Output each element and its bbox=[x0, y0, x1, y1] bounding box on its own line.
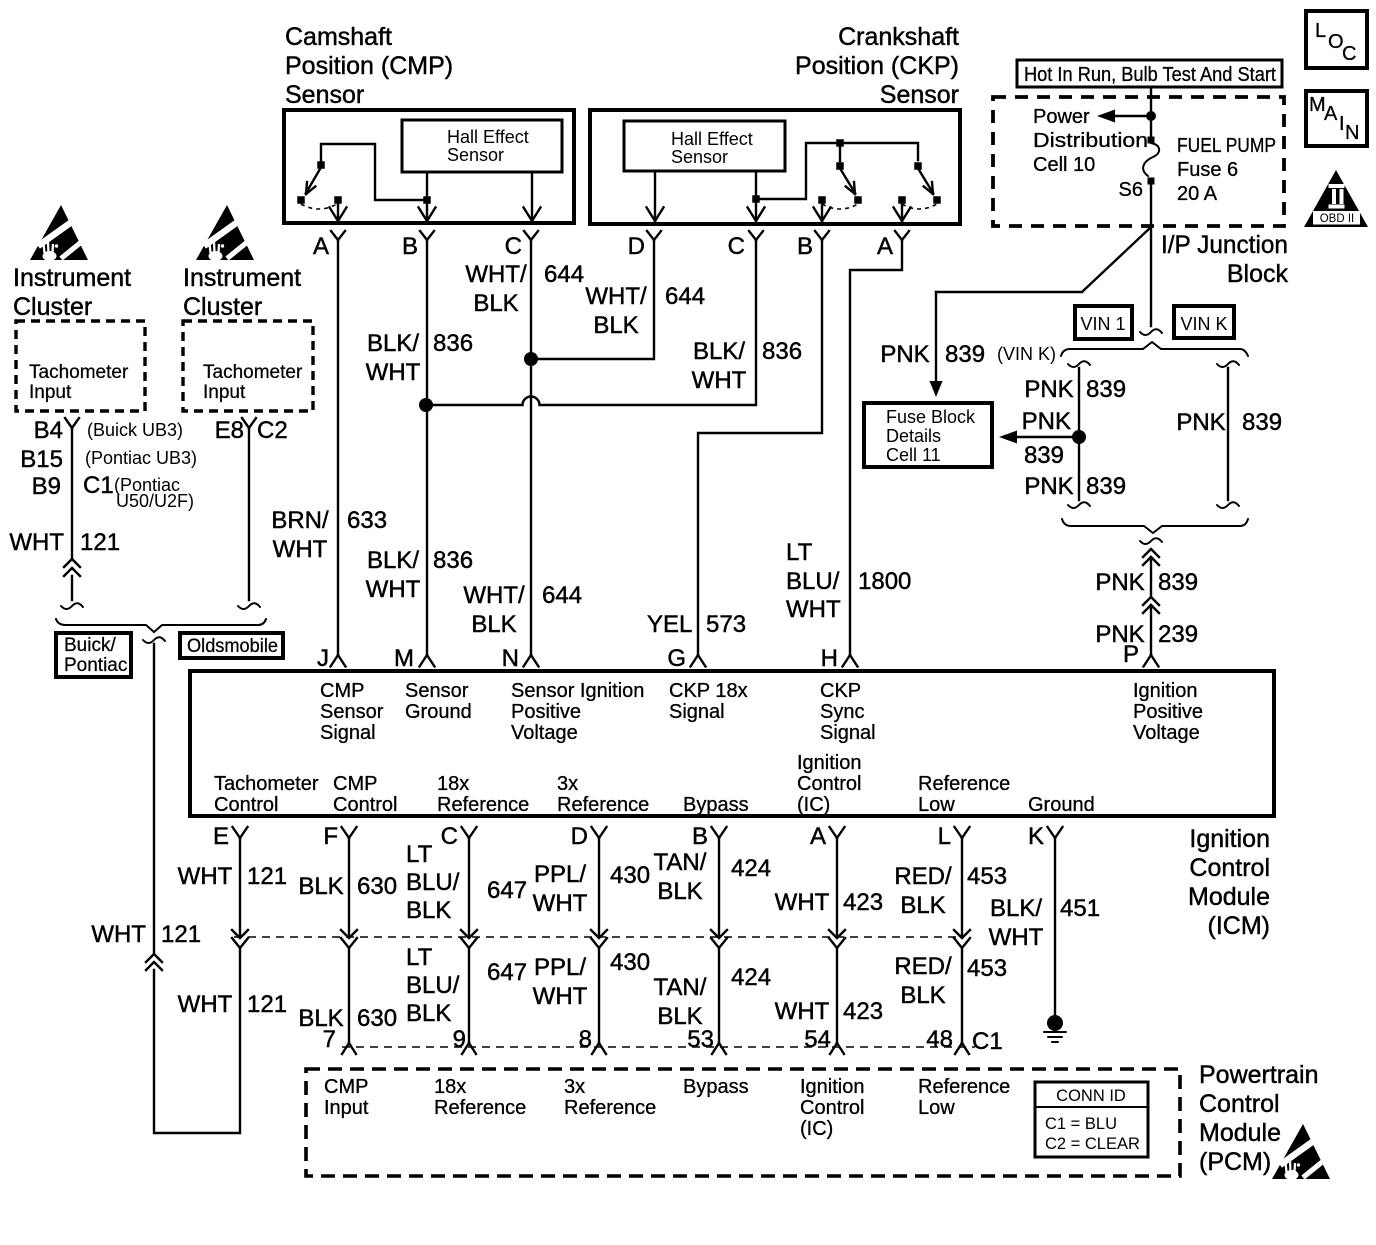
svg-text:647: 647 bbox=[487, 959, 527, 986]
svg-text:Sensor: Sensor bbox=[320, 701, 384, 723]
svg-text:P: P bbox=[1123, 641, 1139, 668]
CMP pin A internal arrow bbox=[337, 204, 339, 220]
wire CMP A to ICM J / BRN WHT 633 bbox=[337, 240, 339, 653]
fuse F6 element bbox=[1143, 143, 1159, 176]
wire end curl bbox=[61, 603, 83, 609]
svg-text:Tachometer: Tachometer bbox=[29, 362, 129, 383]
inline connector symbols bbox=[232, 930, 248, 938]
Oldsmobile box bbox=[180, 633, 283, 658]
CMP switch arm bbox=[306, 169, 320, 193]
wire brace down-left loop to ICM pin E bbox=[154, 644, 240, 1133]
svg-text:Input: Input bbox=[324, 1097, 369, 1119]
svg-text:A: A bbox=[810, 823, 826, 850]
svg-text:48: 48 bbox=[926, 1026, 953, 1053]
svg-text:BLK/: BLK/ bbox=[367, 330, 419, 357]
CMP switch dashed travel arc bbox=[301, 204, 337, 209]
CKP right switch arm bbox=[919, 170, 933, 193]
svg-text:Voltage: Voltage bbox=[511, 722, 578, 744]
CMP switch contact node bbox=[297, 196, 305, 204]
svg-text:Distribution: Distribution bbox=[1033, 130, 1148, 152]
svg-text:Hot In Run, Bulb Test And Star: Hot In Run, Bulb Test And Start bbox=[1024, 64, 1276, 86]
svg-text:PNK: PNK bbox=[1022, 408, 1071, 435]
svg-text:121: 121 bbox=[161, 921, 201, 948]
CKP left switch stub bbox=[839, 147, 841, 161]
svg-text:Hall Effect: Hall Effect bbox=[671, 129, 753, 149]
svg-text:BLK: BLK bbox=[406, 1000, 451, 1027]
Buick/Pontiac box bbox=[56, 633, 131, 677]
svg-text:Ignition: Ignition bbox=[800, 1076, 865, 1098]
svg-text:Oldsmobile: Oldsmobile bbox=[187, 636, 278, 657]
arrow to Power Distribution bbox=[1113, 115, 1149, 117]
svg-text:644: 644 bbox=[542, 582, 582, 609]
svg-text:WHT: WHT bbox=[533, 890, 588, 917]
brace cluster alternatives bbox=[56, 619, 266, 632]
OBD II symbol bbox=[1304, 170, 1368, 227]
svg-text:C2 = CLEAR: C2 = CLEAR bbox=[1045, 1135, 1140, 1153]
svg-text:430: 430 bbox=[610, 949, 650, 976]
Tachometer Input dashed box 1 bbox=[16, 321, 145, 411]
svg-text:644: 644 bbox=[544, 261, 584, 288]
svg-text:Hall Effect: Hall Effect bbox=[447, 127, 529, 147]
svg-text:Instrument: Instrument bbox=[183, 264, 301, 292]
svg-text:Positive: Positive bbox=[1133, 701, 1203, 723]
svg-text:WHT/: WHT/ bbox=[463, 582, 525, 609]
svg-text:Low: Low bbox=[918, 794, 955, 816]
svg-text:C1: C1 bbox=[972, 1028, 1003, 1055]
svg-text:VIN 1: VIN 1 bbox=[1080, 314, 1125, 334]
svg-text:K: K bbox=[1028, 823, 1044, 850]
svg-text:423: 423 bbox=[843, 889, 883, 916]
svg-text:453: 453 bbox=[967, 863, 1007, 890]
svg-text:L: L bbox=[938, 823, 951, 850]
svg-text:Buick/: Buick/ bbox=[64, 635, 116, 656]
wire curl under brace bbox=[143, 637, 165, 643]
svg-text:18x: 18x bbox=[437, 773, 469, 795]
svg-text:Ground: Ground bbox=[1028, 794, 1095, 816]
wire CKP C joining CMP B / BLK WHT 836 bbox=[426, 240, 756, 405]
svg-text:A: A bbox=[877, 233, 893, 260]
svg-text:(PCM): (PCM) bbox=[1199, 1148, 1271, 1176]
svg-text:G: G bbox=[667, 645, 686, 672]
svg-text:I: I bbox=[1339, 113, 1345, 135]
svg-text:121: 121 bbox=[247, 863, 287, 890]
CKP switch common wire bbox=[760, 143, 918, 199]
junction dot 836 splice bbox=[419, 398, 433, 412]
wire ICM D to PCM 8 / PPL WHT 430 bbox=[598, 838, 600, 1043]
svg-text:Fuse Block: Fuse Block bbox=[886, 407, 976, 427]
svg-text:BLK: BLK bbox=[657, 878, 702, 905]
svg-text:Control: Control bbox=[1189, 854, 1270, 882]
svg-text:424: 424 bbox=[731, 964, 771, 991]
svg-text:3x: 3x bbox=[557, 773, 578, 795]
svg-text:Reference: Reference bbox=[918, 773, 1010, 795]
CKP pin B internal arrow bbox=[821, 204, 823, 220]
svg-text:839: 839 bbox=[1242, 409, 1282, 436]
svg-text:BLK: BLK bbox=[298, 1005, 343, 1032]
svg-text:WHT: WHT bbox=[366, 576, 421, 603]
svg-text:Control: Control bbox=[797, 773, 861, 795]
svg-text:Signal: Signal bbox=[669, 701, 725, 723]
svg-text:B4: B4 bbox=[34, 417, 63, 444]
wire branch S6 to fuse block (diagonal) bbox=[936, 228, 1150, 292]
wire ICM A to PCM 54 / WHT 423 bbox=[836, 838, 838, 1043]
svg-text:(ICM): (ICM) bbox=[1208, 912, 1270, 940]
svg-text:Module: Module bbox=[1188, 883, 1270, 911]
svg-text:Signal: Signal bbox=[820, 722, 876, 744]
svg-text:WHT: WHT bbox=[178, 991, 233, 1018]
svg-text:Bypass: Bypass bbox=[683, 794, 749, 816]
CMP reluctor switch common wire bbox=[321, 144, 423, 200]
svg-text:239: 239 bbox=[1158, 621, 1198, 648]
svg-text:(IC): (IC) bbox=[797, 794, 830, 816]
svg-text:BLU/: BLU/ bbox=[406, 972, 460, 999]
VIN K box bbox=[1174, 306, 1234, 338]
svg-text:423: 423 bbox=[843, 998, 883, 1025]
svg-text:C: C bbox=[505, 233, 522, 260]
CMP sensor outer box bbox=[284, 110, 574, 223]
wire CKP D joining CMP C / WHT BLK 644 bbox=[536, 240, 654, 359]
svg-text:BLK/: BLK/ bbox=[990, 895, 1042, 922]
svg-text:839: 839 bbox=[1158, 569, 1198, 596]
svg-text:RED/: RED/ bbox=[894, 953, 952, 980]
svg-text:7: 7 bbox=[323, 1026, 336, 1053]
svg-text:Ground: Ground bbox=[405, 701, 472, 723]
svg-text:836: 836 bbox=[433, 330, 473, 357]
svg-text:Tachometer: Tachometer bbox=[214, 773, 319, 795]
break chevrons upper bbox=[1143, 549, 1159, 557]
svg-text:FUEL PUMP: FUEL PUMP bbox=[1177, 135, 1276, 157]
CKP pin A internal node bbox=[898, 196, 906, 204]
svg-text:BLK: BLK bbox=[473, 290, 518, 317]
svg-text:BLK/: BLK/ bbox=[693, 338, 745, 365]
svg-text:Reference: Reference bbox=[434, 1097, 526, 1119]
svg-text:E8: E8 bbox=[215, 417, 244, 444]
svg-text:B15: B15 bbox=[20, 446, 63, 473]
svg-text:H: H bbox=[821, 645, 838, 672]
svg-text:839: 839 bbox=[945, 341, 985, 368]
svg-text:647: 647 bbox=[487, 877, 527, 904]
svg-text:633: 633 bbox=[347, 507, 387, 534]
PCM connector dashed line bbox=[342, 1046, 975, 1048]
svg-text:Sensor: Sensor bbox=[671, 147, 728, 167]
svg-text:Fuse 6: Fuse 6 bbox=[1177, 159, 1238, 181]
svg-text:OBD II: OBD II bbox=[1320, 213, 1355, 225]
svg-text:Cell 10: Cell 10 bbox=[1033, 154, 1095, 176]
CKP Hall Effect Sensor box U2 bbox=[624, 121, 785, 171]
svg-text:LT: LT bbox=[406, 944, 433, 971]
wire brace to ICM pin P bbox=[1150, 557, 1152, 597]
arrow to Fuse Block Details bbox=[1017, 436, 1077, 438]
svg-text:BLK: BLK bbox=[406, 897, 451, 924]
svg-text:BRN/: BRN/ bbox=[271, 507, 329, 534]
break chevrons lower bbox=[1143, 597, 1159, 605]
svg-text:121: 121 bbox=[247, 991, 287, 1018]
svg-text:Sensor: Sensor bbox=[405, 680, 469, 702]
svg-text:WHT: WHT bbox=[775, 998, 830, 1025]
wire ICM F to PCM 7 / BLK 630 bbox=[348, 838, 350, 1043]
CMP Hall output to pin B node bbox=[423, 196, 431, 204]
svg-text:839: 839 bbox=[1086, 376, 1126, 403]
svg-text:TAN/: TAN/ bbox=[654, 849, 707, 876]
svg-text:630: 630 bbox=[357, 1005, 397, 1032]
svg-text:451: 451 bbox=[1060, 895, 1100, 922]
svg-text:U50/U2F): U50/U2F) bbox=[116, 491, 194, 511]
svg-text:836: 836 bbox=[433, 547, 473, 574]
svg-text:Position (CKP): Position (CKP) bbox=[795, 52, 959, 80]
svg-text:RED/: RED/ bbox=[894, 863, 952, 890]
svg-text:WHT: WHT bbox=[273, 536, 328, 563]
svg-text:BLK: BLK bbox=[900, 982, 945, 1009]
svg-text:PNK: PNK bbox=[1095, 569, 1144, 596]
svg-text:1800: 1800 bbox=[858, 568, 911, 595]
svg-text:WHT: WHT bbox=[91, 921, 146, 948]
svg-text:644: 644 bbox=[665, 283, 705, 310]
harness connector dashed line bbox=[234, 936, 962, 938]
svg-text:LT: LT bbox=[406, 841, 433, 868]
svg-text:836: 836 bbox=[762, 338, 802, 365]
VIN 1 alternative wire bracket bbox=[1068, 361, 1090, 367]
svg-text:PPL/: PPL/ bbox=[534, 861, 586, 888]
svg-text:CONN ID: CONN ID bbox=[1056, 1087, 1126, 1105]
CMP pin B internal arrow bbox=[426, 204, 428, 220]
svg-text:CKP 18x: CKP 18x bbox=[669, 680, 748, 702]
junction dot 644 splice bbox=[524, 352, 538, 366]
brace under VIN alternatives bbox=[1062, 519, 1248, 533]
CKP Hall output to pin C node bbox=[755, 171, 757, 195]
I/P Junction Block dashed box bbox=[993, 97, 1284, 226]
svg-text:Module: Module bbox=[1199, 1119, 1281, 1147]
svg-text:N: N bbox=[502, 645, 519, 672]
svg-text:E: E bbox=[213, 823, 229, 850]
svg-text:Cluster: Cluster bbox=[183, 293, 262, 321]
CMP Hall output to pin C arrow bbox=[531, 172, 533, 220]
svg-text:Reference: Reference bbox=[918, 1076, 1010, 1098]
svg-text:Cluster: Cluster bbox=[13, 293, 92, 321]
svg-text:Crankshaft: Crankshaft bbox=[838, 23, 959, 51]
CKP pin A internal arrow bbox=[901, 204, 903, 220]
ESD symbol left bbox=[30, 205, 92, 261]
Powertrain Control Module dashed box bbox=[306, 1069, 1180, 1176]
fuse F6 terminal top bbox=[1148, 137, 1155, 144]
svg-text:(IC): (IC) bbox=[800, 1118, 833, 1140]
svg-text:Bypass: Bypass bbox=[683, 1076, 749, 1098]
CKP right dashed travel arc bbox=[902, 204, 937, 209]
svg-text:PPL/: PPL/ bbox=[534, 954, 586, 981]
CONN ID box bbox=[1035, 1082, 1148, 1157]
svg-text:Control: Control bbox=[214, 794, 278, 816]
svg-text:BLK: BLK bbox=[593, 312, 638, 339]
svg-text:BLK: BLK bbox=[471, 611, 516, 638]
svg-text:F: F bbox=[323, 823, 338, 850]
svg-text:C: C bbox=[728, 233, 745, 260]
svg-text:C2: C2 bbox=[257, 417, 288, 444]
svg-text:Reference: Reference bbox=[557, 794, 649, 816]
Fuse Block Details Cell 11 box bbox=[864, 403, 992, 467]
svg-text:VIN K: VIN K bbox=[1180, 314, 1227, 334]
MAIN reference box bbox=[1306, 91, 1367, 146]
wire ICM C to PCM 9 / LT BLU BLK 647 bbox=[468, 838, 470, 1043]
svg-text:839: 839 bbox=[1024, 442, 1064, 469]
svg-text:Sensor: Sensor bbox=[880, 81, 959, 109]
svg-text:Instrument: Instrument bbox=[13, 264, 131, 292]
wire curl under brace bbox=[1140, 538, 1162, 544]
svg-text:N: N bbox=[1345, 122, 1359, 144]
ESD symbol right bbox=[196, 205, 258, 261]
svg-text:Sensor: Sensor bbox=[447, 145, 504, 165]
svg-text:D: D bbox=[628, 233, 645, 260]
svg-text:B: B bbox=[692, 823, 708, 850]
svg-text:LT: LT bbox=[786, 539, 813, 566]
CKP right switch contact node bbox=[933, 196, 941, 204]
svg-text:M: M bbox=[394, 645, 414, 672]
fuse F6 terminal bottom bbox=[1148, 178, 1155, 185]
svg-text:Signal: Signal bbox=[320, 722, 376, 744]
svg-text:8: 8 bbox=[579, 1026, 592, 1053]
wire fuse output down to VIN split bbox=[1150, 184, 1152, 326]
svg-text:WHT: WHT bbox=[9, 529, 64, 556]
svg-text:Positive: Positive bbox=[511, 701, 581, 723]
ESD symbol bottom right bbox=[1272, 1124, 1334, 1180]
svg-text:BLK: BLK bbox=[900, 892, 945, 919]
LOC reference box bbox=[1306, 11, 1367, 68]
svg-text:Pontiac: Pontiac bbox=[64, 655, 127, 676]
wire ICM L to PCM 48 / RED BLK 453 bbox=[961, 838, 963, 1043]
svg-text:Control: Control bbox=[1199, 1090, 1280, 1118]
header box: Hot In Run Bulb Test And Start bbox=[1017, 60, 1282, 87]
svg-text:I/P Junction: I/P Junction bbox=[1161, 231, 1288, 259]
svg-text:Tachometer: Tachometer bbox=[203, 362, 303, 383]
svg-text:WHT: WHT bbox=[366, 359, 421, 386]
svg-text:YEL: YEL bbox=[647, 611, 692, 638]
svg-text:B9: B9 bbox=[32, 473, 61, 500]
svg-text:PNK: PNK bbox=[1024, 376, 1073, 403]
wire cluster1 tachometer WHT 121 bbox=[71, 428, 73, 600]
svg-text:A: A bbox=[313, 233, 329, 260]
svg-text:WHT: WHT bbox=[786, 596, 841, 623]
svg-text:Power: Power bbox=[1033, 106, 1090, 128]
svg-text:WHT: WHT bbox=[989, 924, 1044, 951]
svg-text:839: 839 bbox=[1086, 473, 1126, 500]
svg-text:Details: Details bbox=[886, 426, 941, 446]
CMP pin A internal node bbox=[334, 196, 342, 204]
svg-text:Ignition: Ignition bbox=[1133, 680, 1198, 702]
brace over VIN alternatives bbox=[1061, 342, 1248, 356]
CKP pin B internal node bbox=[818, 196, 826, 204]
svg-text:54: 54 bbox=[804, 1026, 831, 1053]
Tachometer Input dashed box 2 bbox=[183, 321, 313, 411]
svg-text:630: 630 bbox=[357, 873, 397, 900]
svg-text:424: 424 bbox=[731, 855, 771, 882]
svg-text:Cell 11: Cell 11 bbox=[886, 445, 941, 465]
CKP left switch arm bbox=[841, 170, 855, 193]
svg-text:WHT/: WHT/ bbox=[585, 283, 647, 310]
CKP sensor outer box bbox=[590, 110, 960, 224]
svg-text:53: 53 bbox=[687, 1026, 714, 1053]
svg-text:WHT: WHT bbox=[775, 889, 830, 916]
svg-text:TAN/: TAN/ bbox=[654, 974, 707, 1001]
svg-text:Input: Input bbox=[203, 382, 246, 403]
wire CMP C to ICM N / WHT BLK 644 bbox=[530, 240, 532, 653]
CMP switch pivot contact bbox=[317, 161, 325, 169]
svg-text:Reference: Reference bbox=[564, 1097, 656, 1119]
svg-text:CKP: CKP bbox=[820, 680, 861, 702]
svg-text:121: 121 bbox=[80, 529, 120, 556]
CKP left switch pivot bbox=[836, 162, 844, 170]
svg-text:CMP: CMP bbox=[324, 1076, 368, 1098]
svg-text:430: 430 bbox=[610, 862, 650, 889]
svg-text:20 A: 20 A bbox=[1177, 183, 1218, 205]
wire end curl VIN split bbox=[1140, 329, 1162, 335]
wire CMP B to ICM M / BLK WHT 836 bbox=[426, 240, 428, 653]
svg-text:C1: C1 bbox=[83, 472, 114, 499]
junction S-node dot bbox=[1146, 111, 1156, 121]
svg-text:BLU/: BLU/ bbox=[786, 568, 840, 595]
svg-text:Sensor Ignition: Sensor Ignition bbox=[511, 680, 644, 702]
svg-text:S6: S6 bbox=[1119, 179, 1143, 201]
svg-text:J: J bbox=[317, 645, 329, 672]
svg-text:Camshaft: Camshaft bbox=[285, 23, 392, 51]
svg-text:3x: 3x bbox=[564, 1076, 585, 1098]
wire end curl bbox=[238, 603, 260, 609]
Ignition Control Module box bbox=[190, 671, 1274, 816]
svg-text:WHT: WHT bbox=[178, 863, 233, 890]
svg-text:B: B bbox=[797, 233, 813, 260]
CKP switch common node bbox=[836, 139, 844, 147]
svg-text:Position (CMP): Position (CMP) bbox=[285, 52, 453, 80]
wire CKP A to ICM H / LT BLU WHT 1800 bbox=[850, 240, 902, 653]
VIN K alternative wire bracket bbox=[1217, 361, 1239, 367]
svg-text:Ignition: Ignition bbox=[797, 752, 862, 774]
CKP pin C internal arrow bbox=[755, 203, 757, 220]
svg-text:CMP: CMP bbox=[320, 680, 364, 702]
svg-text:WHT: WHT bbox=[533, 983, 588, 1010]
wire ICM B to PCM 53 / TAN BLK 424 bbox=[718, 838, 720, 1043]
CKP Hall output to pin D arrow bbox=[654, 171, 656, 220]
svg-text:Block: Block bbox=[1227, 260, 1289, 288]
svg-text:Ignition: Ignition bbox=[1189, 825, 1270, 853]
CKP right switch pivot bbox=[914, 162, 922, 170]
svg-text:453: 453 bbox=[967, 955, 1007, 982]
svg-text:Voltage: Voltage bbox=[1133, 722, 1200, 744]
wire ICM K to ground / BLK WHT 451 bbox=[1054, 838, 1056, 1015]
ground G101 bbox=[1047, 1015, 1063, 1031]
svg-text:BLU/: BLU/ bbox=[406, 869, 460, 896]
wire down to fuse block details bbox=[935, 292, 937, 380]
svg-text:(Buick UB3): (Buick UB3) bbox=[87, 420, 183, 440]
svg-text:Sensor: Sensor bbox=[285, 81, 364, 109]
svg-text:Control: Control bbox=[333, 794, 397, 816]
svg-text:C1 = BLU: C1 = BLU bbox=[1045, 1115, 1117, 1133]
wire cluster2 tachometer bbox=[248, 428, 250, 600]
svg-text:BLK/: BLK/ bbox=[367, 547, 419, 574]
svg-text:PNK: PNK bbox=[880, 341, 929, 368]
svg-text:18x: 18x bbox=[434, 1076, 466, 1098]
svg-text:(Pontiac UB3): (Pontiac UB3) bbox=[85, 448, 197, 468]
break chevrons bbox=[64, 559, 80, 567]
svg-text:D: D bbox=[571, 823, 588, 850]
svg-text:C: C bbox=[441, 823, 458, 850]
svg-text:C: C bbox=[1342, 43, 1356, 65]
junction dot to fuse block bbox=[1072, 430, 1086, 444]
svg-text:Low: Low bbox=[918, 1097, 955, 1119]
svg-text:Powertrain: Powertrain bbox=[1199, 1061, 1319, 1089]
svg-text:CMP: CMP bbox=[333, 773, 377, 795]
svg-text:Input: Input bbox=[29, 382, 72, 403]
CKP left switch contact node bbox=[854, 196, 862, 204]
svg-text:Control: Control bbox=[800, 1097, 864, 1119]
svg-text:B: B bbox=[402, 233, 418, 260]
svg-text:A: A bbox=[1324, 103, 1338, 125]
